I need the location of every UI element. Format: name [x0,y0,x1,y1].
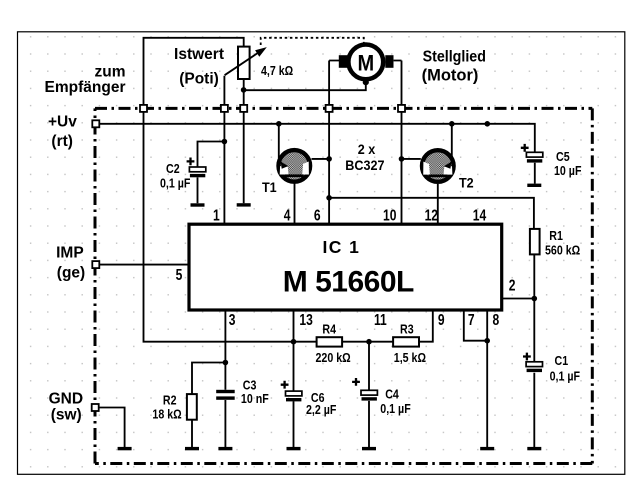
svg-text:GND: GND [49,391,83,408]
svg-text:IMP: IMP [56,245,84,262]
svg-text:8: 8 [493,311,500,329]
svg-text:C4: C4 [385,386,399,401]
svg-text:18 kΩ: 18 kΩ [152,406,182,421]
svg-text:C1: C1 [555,353,569,368]
svg-text:BC327: BC327 [345,157,384,173]
svg-text:IC 1: IC 1 [323,237,361,257]
svg-text:10 nF: 10 nF [241,391,269,406]
svg-text:C5: C5 [556,149,570,164]
svg-text:M 51660L: M 51660L [283,265,414,298]
svg-text:11: 11 [374,311,387,329]
svg-text:(Motor): (Motor) [422,67,479,85]
svg-text:T1: T1 [262,180,277,196]
svg-text:R4: R4 [322,321,336,336]
svg-text:560 kΩ: 560 kΩ [545,242,581,257]
svg-text:5: 5 [176,266,183,284]
svg-text:0,1 µF: 0,1 µF [550,368,580,383]
svg-text:12: 12 [425,206,439,224]
svg-text:2,2 µF: 2,2 µF [306,402,336,417]
svg-text:7: 7 [468,311,475,329]
svg-text:4: 4 [284,206,291,224]
svg-text:M: M [357,51,374,76]
svg-text:T2: T2 [459,175,474,191]
svg-text:R1: R1 [549,228,563,243]
svg-text:0,1 µF: 0,1 µF [160,175,190,190]
svg-text:2 x: 2 x [358,141,376,157]
svg-text:2: 2 [509,276,516,294]
svg-text:4,7 kΩ: 4,7 kΩ [261,63,294,78]
svg-text:+Uv: +Uv [48,114,77,131]
svg-text:(Poti): (Poti) [179,71,219,88]
svg-text:13: 13 [299,311,313,329]
svg-text:1: 1 [213,206,220,224]
svg-text:220 kΩ: 220 kΩ [316,350,352,365]
svg-text:6: 6 [314,206,321,224]
svg-text:(ge): (ge) [57,265,85,282]
svg-text:Istwert: Istwert [174,46,224,63]
svg-text:R3: R3 [400,321,414,336]
svg-text:C2: C2 [166,161,180,176]
svg-text:(rt): (rt) [51,133,73,150]
svg-text:10 µF: 10 µF [554,163,581,178]
svg-text:(sw): (sw) [51,407,82,424]
svg-text:Stellglied: Stellglied [423,49,486,66]
svg-text:3: 3 [229,311,236,329]
svg-text:1,5 kΩ: 1,5 kΩ [394,350,427,365]
svg-text:0,1 µF: 0,1 µF [380,401,410,416]
svg-text:9: 9 [438,311,445,329]
svg-text:Empfänger: Empfänger [45,79,126,96]
svg-text:14: 14 [473,206,487,224]
svg-text:10: 10 [383,206,397,224]
